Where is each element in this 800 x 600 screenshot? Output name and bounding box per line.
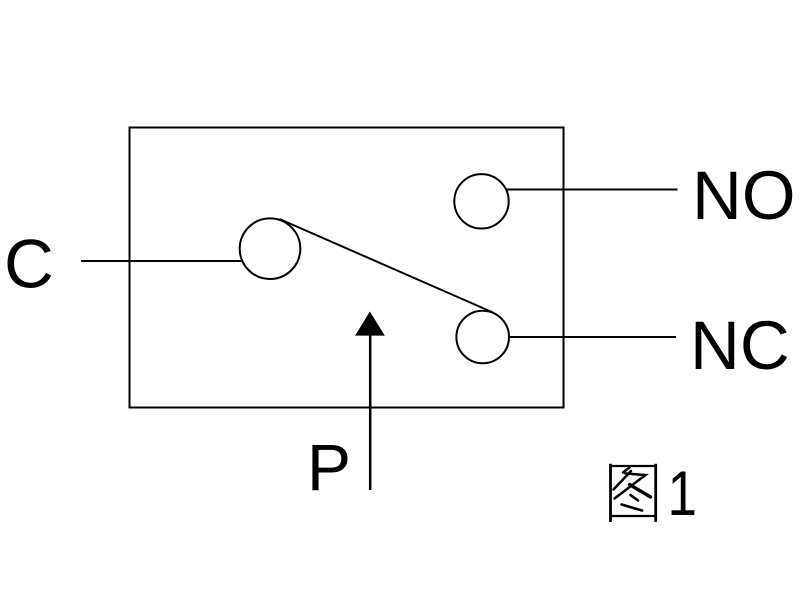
caption figure 1: hanzi TU inner strokes (dong) (614, 468, 651, 511)
svg-text:C: C (4, 226, 54, 303)
wire: C lead (81, 260, 243, 262)
svg-text:NO: NO (692, 157, 796, 234)
NO contact circle (454, 174, 508, 228)
NC contact circle (456, 311, 509, 364)
svg-text:NC: NC (690, 307, 790, 384)
caption figure 1: hanzi TU enclosure box (610, 464, 657, 522)
wire: NO lead (507, 189, 678, 191)
wire: NC lead (509, 336, 676, 338)
plunger arrowhead (355, 312, 385, 336)
switch body rectangle (130, 128, 564, 408)
switch lever from C contact to NC contact (280, 219, 494, 313)
common contact circle C (240, 218, 301, 279)
svg-text:P: P (307, 430, 351, 504)
svg-text:1: 1 (668, 459, 697, 529)
plunger arrow shaft P (369, 334, 372, 490)
